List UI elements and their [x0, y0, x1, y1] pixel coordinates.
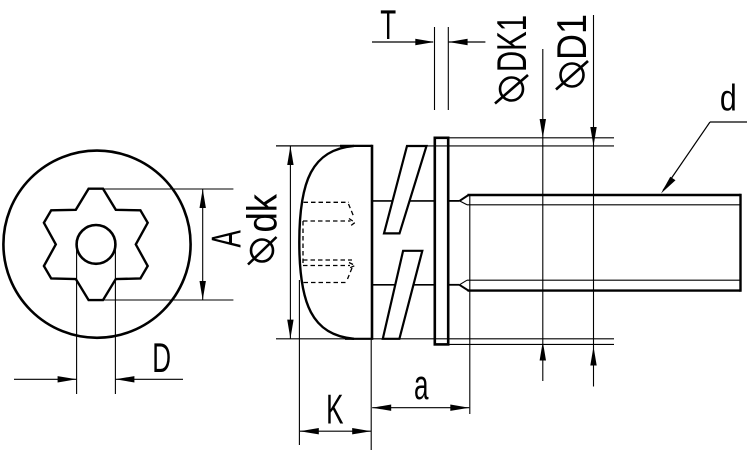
A dimension arrowhead up	[200, 189, 206, 208]
hidden recess dashed line 3a	[303, 259, 352, 261]
shank right end	[739, 194, 741, 292]
thread minor line top	[467, 204, 741, 206]
T extension line right	[447, 27, 449, 110]
a / K extension line at head edge	[370, 340, 372, 450]
head bottom edge extension line (to D1 ext)	[276, 338, 614, 340]
shank outline bottom	[468, 289, 741, 291]
spring washer top piece	[384, 146, 427, 233]
head dome arc	[299, 146, 354, 339]
spring washer top extension line (D1 top)	[407, 145, 614, 147]
D dimension extension line left	[76, 248, 78, 394]
thread runout chevron bottom minor	[459, 280, 467, 285]
svg-text:DK1: DK1	[488, 15, 535, 72]
flat washer	[435, 138, 448, 345]
hidden recess dashed line 1	[304, 201, 350, 203]
torx recess star	[44, 189, 148, 300]
spring washer bottom piece	[383, 251, 423, 339]
T dimension line left with arrow	[372, 41, 433, 43]
label phi of dk	[251, 240, 273, 262]
K arrowhead left	[300, 428, 319, 434]
label phi of D1	[561, 64, 584, 87]
shank top connect line left segment	[372, 200, 392, 202]
thread runout chevron bottom major	[459, 285, 468, 291]
A dimension extension line bottom	[103, 299, 234, 301]
a extension line right	[469, 196, 471, 414]
A dimension extension line top	[103, 188, 234, 190]
svg-text:a: a	[414, 362, 429, 409]
shank outline top	[468, 194, 741, 196]
svg-text:d: d	[720, 78, 737, 120]
head front view outer circle	[3, 151, 190, 338]
shank top connect line right segment	[410, 200, 435, 202]
svg-text:D: D	[152, 335, 171, 382]
phi-DK1 dimension line	[542, 49, 544, 381]
a arrowhead right	[450, 405, 469, 411]
phi-dk dimension line	[289, 146, 291, 339]
thread runout chevron top major	[460, 195, 469, 201]
svg-text:K: K	[326, 386, 343, 433]
K dimension line	[300, 430, 371, 432]
svg-text:D1: D1	[548, 14, 595, 60]
head bottom edge thick	[345, 338, 372, 340]
phi-dk arrowhead up	[287, 146, 293, 165]
D dimension extension line right	[114, 248, 116, 394]
hidden recess dashed line 4	[304, 282, 349, 284]
D dimension line right with arrow	[115, 378, 183, 380]
head right edge	[371, 145, 374, 340]
d leader arrowhead	[661, 177, 676, 194]
phi-D1 arrowhead down	[590, 127, 596, 146]
label phi of DK1	[500, 78, 523, 101]
phi-DK1 arrowhead down	[540, 119, 546, 138]
hidden recess dashed diagonal bottom	[348, 268, 353, 279]
thread minor line bottom	[467, 279, 741, 281]
a arrowhead left	[372, 405, 391, 411]
hidden recess dashed vertical	[302, 221, 304, 266]
T dimension line right with arrow	[449, 41, 486, 43]
thread runout chevron top minor	[460, 201, 468, 205]
d leader diagonal	[663, 122, 710, 191]
center pin circle	[77, 225, 116, 264]
phi-D1 dimension line	[593, 15, 595, 387]
T extension line left	[434, 27, 436, 110]
hidden recess dashed line 2	[303, 220, 351, 222]
hidden recess dashed diagonal top	[349, 204, 354, 216]
head top edge thick	[340, 145, 372, 147]
thread runout stub bottom	[448, 284, 459, 286]
A dimension line	[202, 189, 204, 300]
shank bottom connect line left segment	[372, 284, 395, 286]
thread runout stub top	[448, 200, 459, 202]
hidden recess dashed chevron bottom	[349, 263, 356, 269]
A dimension arrowhead down	[200, 281, 206, 300]
K arrowhead right	[352, 428, 371, 434]
phi-DK1 arrowhead up	[540, 342, 546, 361]
phi-dk arrowhead down	[287, 320, 293, 339]
shank bottom connect line right segment	[413, 284, 434, 286]
D dimension line left with arrow	[14, 378, 77, 380]
hidden recess dashed line 3b	[303, 265, 350, 267]
hidden recess dashed chevron top	[349, 219, 355, 228]
K extension line left	[298, 280, 300, 445]
flat washer top extension line	[448, 137, 614, 139]
head top edge + phi-dk top extension line	[276, 145, 372, 147]
a dimension line	[372, 407, 469, 409]
svg-text:dk: dk	[239, 193, 286, 232]
phi-D1 arrowhead up	[590, 347, 596, 366]
svg-text:T: T	[380, 2, 396, 49]
flat washer bottom extension line	[448, 343, 614, 345]
d leader horizontal	[710, 121, 747, 123]
